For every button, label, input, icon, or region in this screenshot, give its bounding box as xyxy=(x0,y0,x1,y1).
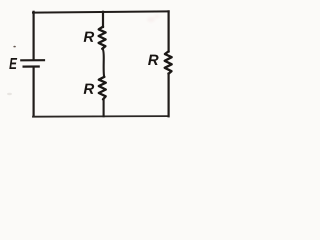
battery E top plate xyxy=(21,59,44,61)
resistor R bottom (zigzag) xyxy=(99,77,106,100)
wire left lower xyxy=(32,68,34,117)
wire right lower xyxy=(168,74,170,117)
speck artifact left xyxy=(13,46,16,48)
battery E bottom plate xyxy=(24,65,39,67)
wire middle bottom xyxy=(103,99,105,116)
wire left upper xyxy=(32,12,34,60)
wire top xyxy=(33,11,169,12)
label R bottom xyxy=(84,84,94,94)
smudge artifact gray left xyxy=(7,93,12,95)
label R top xyxy=(84,32,94,42)
resistor R top (zigzag) xyxy=(99,27,106,49)
label E xyxy=(9,58,17,69)
wire bottom xyxy=(33,115,169,118)
wire right upper xyxy=(168,11,170,51)
wire middle top xyxy=(102,12,104,27)
resistor R right (zigzag) xyxy=(165,51,172,74)
smudge artifact pink top-right xyxy=(147,15,160,23)
label R right xyxy=(148,55,158,65)
wire middle center xyxy=(103,49,105,77)
